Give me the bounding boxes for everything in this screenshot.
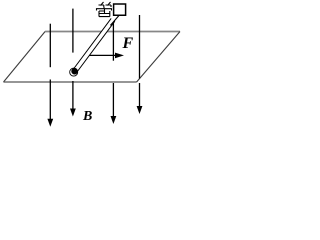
inclined plane parallelogram: top edge: [45, 31, 180, 33]
field line 1 lower segment with arrowhead: [49, 80, 51, 125]
管 character: lower body: [99, 9, 110, 17]
field line 4 upper segment (x=139.5): [139, 15, 141, 79]
tube (white capsule with black outline, rounded lower end): [72, 18, 115, 73]
field line 2 lower segment with arrowhead (B arrow): [72, 81, 74, 114]
field line 3 lower segment with arrowhead: [112, 83, 114, 122]
inclined plane parallelogram: left slant edge: [4, 32, 46, 83]
field line 2 upper segment (x=72.9): [72, 9, 74, 53]
管 character: roof: [97, 7, 112, 11]
管 character: bamboo radical: [99, 2, 112, 7]
svg-text:F: F: [122, 35, 134, 52]
inclined plane parallelogram: right slant edge: [137, 32, 180, 83]
tube mouth leader mark: [110, 15, 119, 25]
field line 1 upper segment (x=50.3): [49, 24, 51, 67]
inclined plane parallelogram: bottom edge: [4, 81, 137, 83]
口 character: [114, 4, 126, 15]
field line 4 lower segment with arrowhead: [139, 83, 141, 112]
label 管口 (drawn strokes): [97, 2, 126, 17]
force arrow F (horizontal, pointing right): [90, 54, 118, 56]
ball (filled circle at tube lower end): [71, 68, 78, 75]
field line 3 upper segment (x=113.4): [112, 23, 114, 61]
tube end bulge (outline circle around ball): [70, 68, 78, 76]
svg-text:B: B: [82, 109, 92, 124]
